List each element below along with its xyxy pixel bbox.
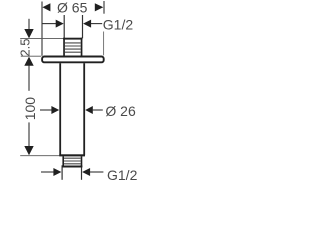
dimension Ø65 right extension line lower thin (103, 32, 105, 56)
dimension Ø65 right extension line upper (103, 1, 105, 14)
dimension G1/2 bottom left arrow (53, 168, 61, 176)
dimension 2.5 down arrow (24, 29, 33, 38)
svg-text:G1/2: G1/2 (107, 167, 138, 183)
top thread nipple right side (81, 38, 83, 56)
dimension G1/2 top left arrow (56, 20, 64, 28)
top thread nipple left side (63, 38, 65, 56)
bottom thread hatch line 3 (64, 163, 81, 165)
dimension G1/2 bottom left extension bar (61, 165, 63, 180)
bottom thread right side (81, 156, 83, 167)
dimension Ø26 leader left (40, 109, 52, 111)
svg-text:Ø 65: Ø 65 (57, 0, 88, 16)
dimension 2.5 upper extension line (nipple top) (20, 38, 64, 40)
top thread nipple top edge (63, 38, 82, 40)
dimension 100 lower extension line (pipe end) (20, 155, 59, 157)
dimension G1/2 bottom right extension bar (81, 165, 83, 180)
dimension G1/2 bottom leader left (41, 171, 54, 173)
svg-text:G1/2: G1/2 (103, 17, 134, 33)
dimension G1/2 top leader left (42, 23, 56, 25)
dimension Ø26 leader right (93, 109, 103, 111)
dimension Ø65 left extension line (41, 2, 43, 56)
bottom thread hatch line 1 (64, 157, 81, 159)
pipe right wall (83, 63, 85, 155)
bottom thread bottom edge (62, 166, 82, 168)
dimension Ø26 right arrow (85, 106, 93, 114)
dimension 100 line lower (28, 122, 30, 146)
dimension Ø26 left arrow (51, 106, 59, 114)
top thread hatch line 2 (65, 45, 81, 47)
bottom thread left side (62, 156, 64, 167)
top thread hatch line 3 (65, 48, 81, 50)
bottom thread hatch line 2 (64, 160, 81, 162)
dimension G1/2 bottom right arrow (82, 168, 90, 176)
dimension G1/2 top left extension bar (63, 15, 65, 38)
dimension G1/2 bottom leader right (90, 171, 103, 173)
dimension 2.5 lower extension line (flange top) (21, 55, 42, 57)
dimension 100 line upper (28, 65, 30, 90)
dimension G1/2 top right arrow (83, 20, 91, 28)
svg-text:100: 100 (22, 97, 38, 121)
top thread hatch line 4 (65, 51, 81, 53)
flange (42, 57, 104, 63)
dimension G1/2 top right extension bar (82, 15, 84, 38)
dimension 100 down arrow (24, 146, 33, 155)
dimension Ø65 right arrow (95, 3, 104, 11)
dimension 2.5 upper stub (28, 19, 30, 29)
dimension G1/2 top leader right (91, 23, 102, 25)
dimension 2.5 up arrow (24, 57, 33, 66)
pipe left wall (59, 63, 61, 155)
svg-text:2.5: 2.5 (17, 39, 32, 57)
pipe bottom edge (59, 154, 85, 156)
dimension Ø65 left arrow (42, 3, 50, 11)
top thread hatch line 1 (65, 42, 81, 44)
svg-text:Ø 26: Ø 26 (105, 103, 136, 119)
